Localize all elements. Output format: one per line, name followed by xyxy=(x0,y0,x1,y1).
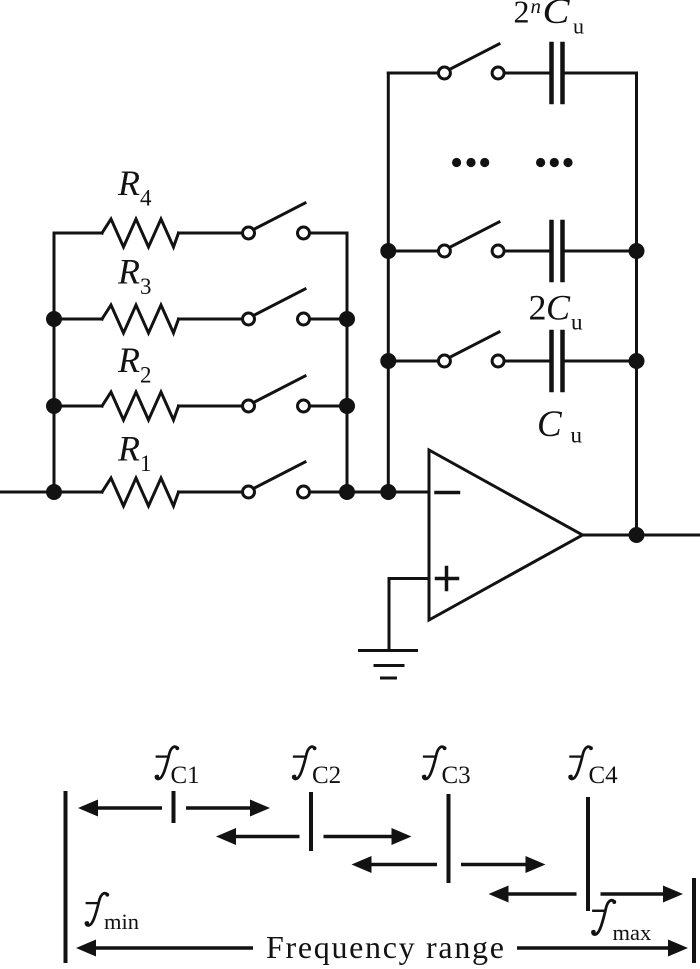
svg-text:R4: R4 xyxy=(117,163,152,210)
svg-text:C: C xyxy=(546,288,571,328)
label fC1 xyxy=(155,746,199,789)
node at R3 left xyxy=(46,311,62,327)
node cap bus left at inverting input xyxy=(380,484,396,500)
node cap bus right at output xyxy=(629,527,645,543)
svg-text:u: u xyxy=(573,14,584,39)
wire left resistor bus xyxy=(53,233,56,492)
node at R3 right xyxy=(339,311,355,327)
wire from resistor bus to op-amp inverting input xyxy=(347,491,429,494)
svg-text:C1: C1 xyxy=(171,762,200,789)
tick fC3 xyxy=(447,794,451,883)
resistor R4 xyxy=(54,219,242,247)
svg-text:C3: C3 xyxy=(442,762,471,789)
ellipsis dots right group xyxy=(536,158,573,167)
svg-text:C4: C4 xyxy=(589,762,619,789)
tick fC4 xyxy=(586,797,590,911)
wire op-amp output xyxy=(583,534,700,537)
svg-text:Frequency range: Frequency range xyxy=(266,929,506,965)
switch for capacitor Cu xyxy=(388,332,504,367)
node cap bus right row Cu xyxy=(629,353,645,369)
label fmax xyxy=(592,900,651,945)
double arrow range 3 xyxy=(352,856,546,873)
capacitor Cu xyxy=(505,332,637,390)
svg-text:R2: R2 xyxy=(117,340,152,387)
svg-text:u: u xyxy=(571,310,583,335)
label fC3 xyxy=(423,746,471,789)
switch S2 xyxy=(243,376,348,412)
resistor R1 xyxy=(102,478,242,506)
capacitor 2Cu xyxy=(505,222,637,280)
double arrow full frequency range xyxy=(76,940,688,957)
switch for capacitor 2Cu xyxy=(388,222,504,257)
svg-text:2: 2 xyxy=(514,0,530,30)
svg-text:C: C xyxy=(543,0,571,31)
label fC2 xyxy=(293,746,342,789)
double arrow range 2 xyxy=(216,828,412,845)
ellipsis dots left group xyxy=(452,158,489,167)
label fmin xyxy=(85,893,139,934)
wire capacitor-bank right bus xyxy=(635,73,638,535)
node cap bus right row 2Cu xyxy=(629,243,645,259)
switch S3 xyxy=(243,289,348,325)
switch for capacitor 2^nCu xyxy=(388,44,504,79)
node cap bus left row Cu xyxy=(380,353,396,369)
svg-text:C2: C2 xyxy=(312,762,341,789)
tick fC2 xyxy=(309,792,313,851)
svg-text:min: min xyxy=(104,909,139,934)
label 2Cu xyxy=(529,288,584,335)
svg-text:R1: R1 xyxy=(117,429,152,476)
node at R1 left xyxy=(46,484,62,500)
wire input line to R1 row xyxy=(0,491,102,494)
node at R1 right xyxy=(339,484,355,500)
frequency axis right xyxy=(692,878,696,963)
capacitor 2^nCu xyxy=(505,44,637,102)
wire capacitor-bank left bus xyxy=(387,73,390,492)
double arrow range 1 xyxy=(78,800,270,817)
op-amp U1 xyxy=(429,450,583,620)
svg-text:R3: R3 xyxy=(117,252,152,299)
label Cu xyxy=(537,404,583,448)
svg-text:max: max xyxy=(613,920,652,945)
wire non-inverting input to ground xyxy=(389,579,429,651)
tick fC1 xyxy=(172,791,176,823)
resistor R3 xyxy=(54,305,242,333)
node at R2 right xyxy=(339,398,355,414)
ground xyxy=(360,651,417,679)
svg-text:n: n xyxy=(531,0,542,18)
label fC4 xyxy=(569,746,618,789)
svg-text:2: 2 xyxy=(529,288,547,328)
node at R2 left xyxy=(46,398,62,414)
switch S4 xyxy=(243,203,348,239)
frequency axis left xyxy=(64,791,68,963)
svg-text:C: C xyxy=(537,404,563,445)
node cap bus left row 2Cu xyxy=(380,243,396,259)
double arrow range 4 xyxy=(489,886,684,903)
label 2^nCu xyxy=(514,0,585,39)
wire right resistor collector bus xyxy=(346,233,349,492)
svg-text:u: u xyxy=(571,423,583,448)
switch S1 xyxy=(243,462,348,498)
resistor R2 xyxy=(54,392,242,420)
